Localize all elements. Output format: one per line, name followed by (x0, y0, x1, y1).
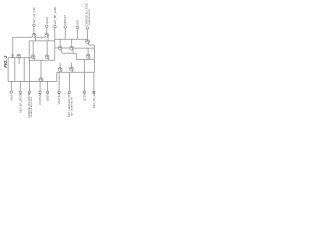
wire small box left edge (7, 58, 9, 82)
node T1 (33, 24, 35, 26)
wire T2 stub (46, 27, 48, 33)
wire jog down (75, 53, 77, 59)
svg-text:VOUT2AB: VOUT2AB (57, 92, 61, 104)
wire B7 drop (68, 72, 70, 91)
transistor M11 (70, 67, 74, 72)
node T2 (46, 25, 48, 27)
node B5 (46, 91, 48, 93)
transistor M1 (32, 33, 36, 41)
wire M11 top stub (70, 63, 72, 67)
svg-text:VDD: VDD (75, 20, 79, 26)
wire M6 feed (71, 39, 73, 46)
wire elbow riser (56, 72, 58, 81)
svg-text:NET_AP_2BCDE: NET_AP_2BCDE (18, 93, 22, 113)
node B9 (93, 91, 95, 93)
wire M5 feed (59, 39, 61, 46)
transistor M9 (38, 78, 43, 82)
svg-text:NET_BP_1ABC: NET_BP_1ABC (53, 6, 57, 24)
wire top-left base rail (13, 36, 33, 38)
wire B3 drop (28, 60, 30, 91)
wire B4 drop (39, 81, 41, 91)
node rail E2 (76, 59, 94, 61)
transistor M3 (31, 55, 35, 60)
svg-text:NET CHARGE2 XP: NET CHARGE2 XP (70, 96, 73, 116)
wire base tie M1-M2 (36, 36, 45, 38)
transistor M2 (45, 33, 49, 41)
transistor M6 (70, 46, 74, 53)
wire B1 drop (10, 81, 12, 91)
transistor M10 (58, 68, 62, 73)
node B1 (10, 91, 12, 93)
node T5 (76, 26, 78, 28)
svg-text:QB1NXT: QB1NXT (63, 14, 67, 25)
svg-text:QB2NX: QB2NX (45, 92, 49, 101)
svg-text:VOUT1AB: VOUT1AB (38, 93, 42, 105)
wire base rail bus-M5 (55, 47, 58, 49)
wire mid bus (54, 28, 56, 60)
wire B2 drop (19, 81, 21, 91)
transistor M5 (58, 46, 62, 53)
svg-text:CHARGE B EN2: CHARGE B EN2 (88, 8, 91, 25)
terminal circles top (33, 24, 89, 29)
wire M0 emitter (18, 58, 20, 64)
wire B6 drop (58, 72, 60, 91)
node B7 (68, 91, 70, 93)
wire M3 feed (32, 41, 34, 55)
node B8 (83, 91, 85, 93)
node rail E (89, 44, 95, 46)
node B3 (28, 91, 30, 93)
node B2 (19, 91, 21, 93)
node top rail (55, 38, 88, 40)
node B4 (39, 91, 41, 93)
wire M9 feed (40, 60, 42, 77)
transistor MR1 (86, 40, 90, 45)
wire rail M6-right (74, 47, 95, 49)
wire QR2 top feed (87, 48, 89, 55)
svg-text:VINX: VINX (9, 95, 13, 101)
svg-text:NET_AP_12X: NET_AP_12X (32, 7, 36, 23)
transistor M4 (45, 55, 49, 60)
transistor QR2 (86, 55, 90, 60)
wire T1 stub (33, 27, 35, 34)
wire M10 top stub (59, 63, 61, 68)
wire right edge (93, 45, 95, 72)
wire B9 drop (93, 72, 95, 91)
wire M4 feed (46, 41, 48, 55)
svg-text:200: 200 (11, 53, 14, 58)
node rail row2 (29, 59, 55, 61)
node B6 (58, 91, 60, 93)
wire T4 stub (64, 28, 66, 39)
svg-text:QC2NX: QC2NX (82, 92, 86, 101)
wire T6 stub (86, 29, 88, 40)
wire left box edge (12, 37, 14, 58)
svg-text:CHARGE AP2 DRV2: CHARGE AP2 DRV2 (30, 96, 33, 117)
node rail H7 (8, 80, 57, 82)
node T4 (64, 26, 66, 28)
node rail D (62, 52, 77, 54)
wire B5 drop (46, 81, 48, 91)
wire H2 rail (8, 57, 31, 59)
node rail G (57, 71, 95, 73)
transistor M0 (17, 54, 21, 58)
svg-text:FIG. 2: FIG. 2 (3, 55, 8, 68)
wire T5 stub (76, 29, 78, 39)
wire B8 drop (83, 60, 85, 92)
wire right small box edge (23, 58, 25, 82)
svg-text:QA1N: QA1N (45, 17, 49, 24)
wire base tie M5-M6 (62, 47, 70, 49)
svg-text:NET_CP_2AB: NET_CP_2AB (92, 91, 96, 108)
node T3 (54, 25, 56, 27)
node rail row1 (29, 40, 55, 42)
node T6 (86, 27, 88, 29)
